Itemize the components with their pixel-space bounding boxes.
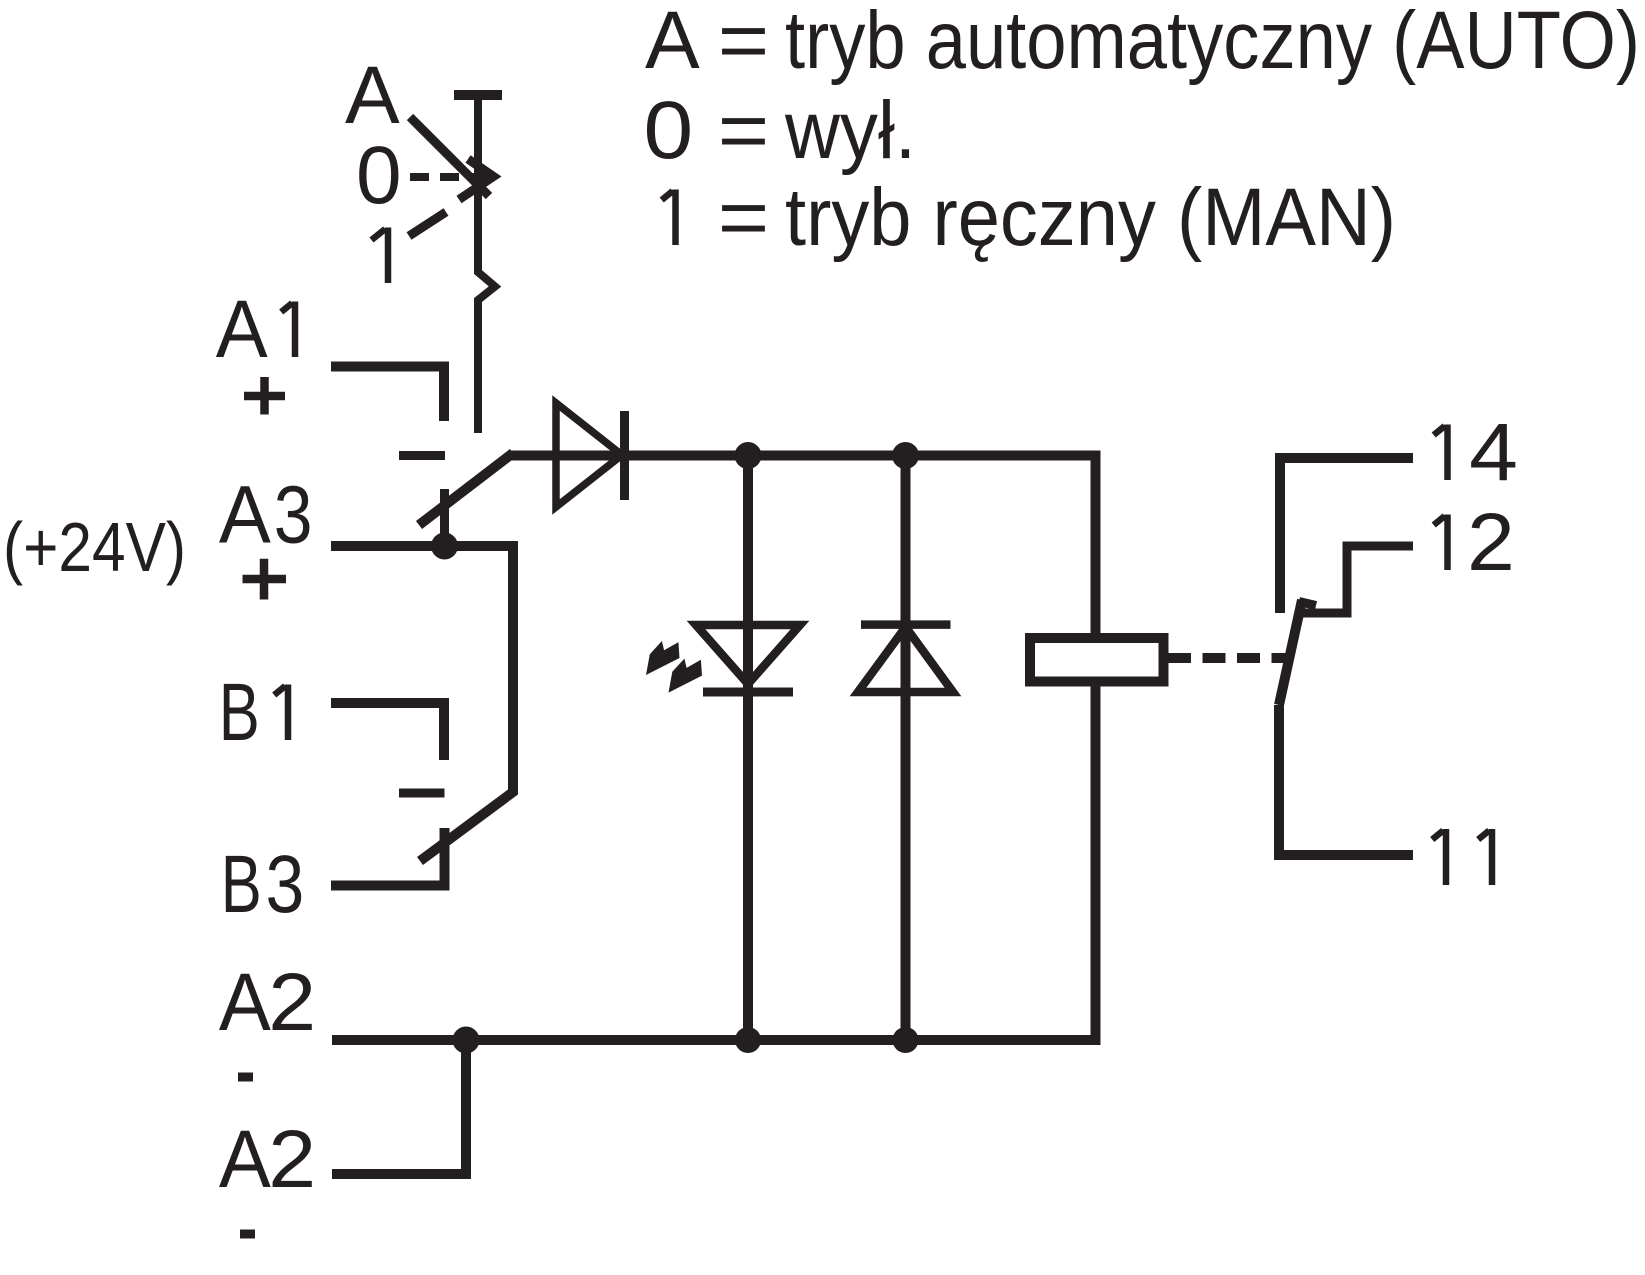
- svg-text:A: A: [645, 0, 700, 86]
- svg-text:A: A: [345, 50, 400, 141]
- svg-text:tryb ręczny (MAN): tryb ręczny (MAN): [785, 172, 1396, 263]
- svg-text:0: 0: [644, 84, 694, 176]
- svg-text:A: A: [216, 283, 269, 374]
- svg-text:2: 2: [1467, 496, 1515, 588]
- svg-text:A: A: [219, 1113, 272, 1204]
- svg-text:4: 4: [1469, 406, 1518, 498]
- svg-text:=: =: [718, 0, 769, 86]
- svg-text:A: A: [219, 469, 272, 560]
- svg-text:A: A: [219, 956, 272, 1047]
- svg-text:tryb automatyczny (AUTO): tryb automatyczny (AUTO): [785, 0, 1640, 86]
- svg-text:0: 0: [356, 130, 402, 221]
- svg-text:2: 2: [268, 956, 316, 1048]
- svg-text:B: B: [221, 838, 262, 930]
- svg-text:=: =: [718, 85, 769, 177]
- svg-text:2: 2: [268, 1113, 316, 1205]
- svg-text:(+24V): (+24V): [3, 508, 186, 586]
- svg-text:3: 3: [274, 469, 313, 561]
- svg-text:=: =: [718, 172, 769, 264]
- svg-text:B: B: [219, 666, 260, 758]
- svg-text:3: 3: [266, 839, 305, 931]
- svg-text:wył.: wył.: [784, 85, 916, 176]
